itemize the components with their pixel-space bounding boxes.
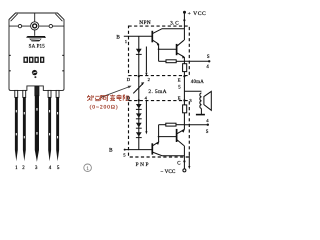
svg-text:PNP: PNP: [136, 162, 150, 168]
svg-text:B: B: [116, 34, 120, 40]
svg-text:3. C: 3. C: [170, 22, 179, 27]
svg-text:1: 1: [86, 166, 89, 172]
svg-text:S: S: [207, 55, 210, 60]
svg-text:B: B: [109, 148, 113, 154]
svg-text:SA P15: SA P15: [29, 45, 46, 50]
svg-text:(0~200Ω): (0~200Ω): [90, 104, 119, 111]
svg-text:2. 5mA: 2. 5mA: [148, 89, 167, 95]
svg-text:40mA: 40mA: [191, 80, 204, 85]
svg-text:NPN: NPN: [139, 20, 151, 26]
svg-text:− VCC: − VCC: [161, 169, 176, 175]
svg-text:E: E: [178, 96, 181, 101]
svg-text:E: E: [178, 78, 181, 83]
svg-text:C: C: [177, 162, 180, 167]
svg-text:+ VCC: + VCC: [188, 11, 207, 17]
svg-text:S: S: [206, 130, 209, 135]
